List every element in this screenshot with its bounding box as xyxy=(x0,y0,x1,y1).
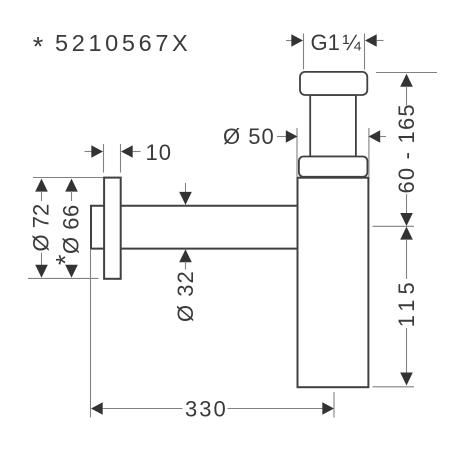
dimension G1 1/4 stub right xyxy=(377,40,384,42)
dimension 330 left line xyxy=(103,408,183,410)
dimension 10 arrow left xyxy=(91,145,103,157)
dimension O66 top stub xyxy=(71,191,73,201)
trap body cylinder xyxy=(298,178,369,388)
dimension O50 arrow right xyxy=(369,130,381,142)
dimension 115 lower line xyxy=(406,328,408,374)
wall rosette flange xyxy=(104,178,121,279)
dimension O72 top stub xyxy=(41,191,43,201)
lower cap flange xyxy=(299,157,368,177)
dimension 10 arrow right xyxy=(121,145,133,157)
wall pipe xyxy=(91,206,298,249)
svg-text:*: * xyxy=(33,31,44,61)
svg-text:Ø 72: Ø 72 xyxy=(29,204,54,252)
dimension O66 top arrow xyxy=(65,179,78,192)
dimension 330 right arrow xyxy=(322,402,334,414)
dimension 60-165 lower line xyxy=(406,194,408,215)
dimension 115 upper line xyxy=(406,239,408,279)
dimension O72/O66 top extension line xyxy=(33,177,103,179)
dimension 10 stub right xyxy=(133,151,141,153)
dimension 60-165 bottom arrow xyxy=(400,213,413,226)
dimension O50 stub left xyxy=(277,136,288,138)
dimension 330 centerline extension xyxy=(333,392,335,418)
dimension 330 left arrow xyxy=(91,402,103,414)
dimension O50 arrow left xyxy=(286,130,298,142)
dimension O32 bottom arrow xyxy=(179,249,192,262)
dimension O50 extension line right xyxy=(368,128,370,177)
dimension 115 bottom extension line xyxy=(373,386,415,388)
top cap nut xyxy=(300,72,367,95)
svg-text:60 - 165: 60 - 165 xyxy=(394,103,419,193)
dimension O72 bottom stub xyxy=(41,253,43,267)
svg-text:G1 ¼: G1 ¼ xyxy=(311,30,362,55)
svg-text:10: 10 xyxy=(146,140,172,165)
dimension 60-165 upper line xyxy=(406,86,408,106)
svg-text:115: 115 xyxy=(394,277,419,327)
dimension O50 extension line left xyxy=(296,128,298,177)
dimension 10 extension line right xyxy=(120,144,122,173)
dimension 60-165 / 115 shared tick line xyxy=(373,225,415,227)
dimension G1 1/4 extension line right xyxy=(364,34,366,70)
dimension 330 left extension line xyxy=(90,250,92,418)
dimension O66 bottom arrow xyxy=(65,265,78,278)
dimension 115 bottom arrow xyxy=(400,373,413,386)
svg-text:Ø 50: Ø 50 xyxy=(223,124,275,149)
neck tube of trap xyxy=(310,95,356,157)
dimension G1 1/4 arrow left xyxy=(291,34,303,46)
dimension 330 right line xyxy=(228,408,324,410)
dimension O32 top arrow xyxy=(179,192,192,205)
dimension O72 bottom arrow xyxy=(35,265,48,278)
svg-text:5210567X: 5210567X xyxy=(55,30,191,56)
svg-text:330: 330 xyxy=(185,396,228,421)
dimension O32 top stub xyxy=(185,183,187,194)
dimension 10 extension line left xyxy=(103,144,105,173)
dimension G1 1/4 stub left xyxy=(286,40,293,42)
dimension G1 1/4 arrow right xyxy=(365,34,377,46)
dimension 60-165 top arrow xyxy=(400,74,413,87)
dimension 10 stub left xyxy=(85,151,94,153)
dimension 60-165 top extension line xyxy=(376,72,437,74)
dimension G1 1/4 extension line left xyxy=(303,34,305,70)
dimension O72/O66 bottom extension line xyxy=(28,277,99,279)
svg-text:Ø 32: Ø 32 xyxy=(173,270,198,322)
dimension O32 bottom stub xyxy=(185,262,187,270)
dimension O72 top arrow xyxy=(35,179,48,192)
dimension O50 stub right xyxy=(380,136,386,138)
dimension 115 top arrow xyxy=(400,227,413,240)
